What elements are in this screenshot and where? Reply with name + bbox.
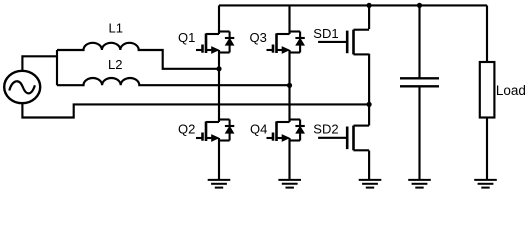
svg-text:L1: L1 — [109, 21, 123, 36]
svg-text:L2: L2 — [108, 57, 122, 72]
svg-text:Q4: Q4 — [250, 122, 267, 137]
svg-text:Q3: Q3 — [250, 30, 267, 45]
svg-text:Load: Load — [496, 83, 526, 98]
svg-text:Q2: Q2 — [178, 122, 195, 137]
svg-text:SD1: SD1 — [313, 26, 338, 41]
svg-text:SD2: SD2 — [313, 121, 338, 136]
svg-text:Q1: Q1 — [178, 30, 195, 45]
